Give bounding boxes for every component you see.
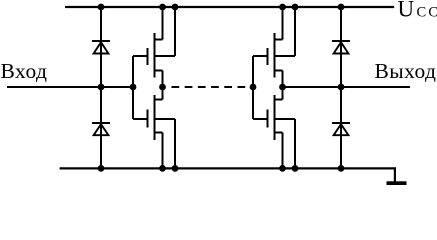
node Вход label [1,59,48,83]
wire VT3 bulk to Ucc [294,7,296,56]
wire VT1 source to Ucc [162,7,164,40]
node A junction stage1 output [159,84,166,91]
wire bottom ground rail [60,168,395,181]
junction stage2 output node [279,84,286,91]
junction stage1 gate feed / input [130,84,137,91]
wire VT3 drain to output node [282,71,284,88]
junction VT2 source rail [159,165,166,172]
transistor VT4 NMOS stage2 [253,95,295,140]
ground symbol [387,181,407,186]
wire left protection column [100,7,102,168]
node Выход label [375,59,437,83]
diode VD2 lower left (ground to input) [92,123,110,135]
wire VT4 source to ground [282,133,284,169]
junction left column bottom rail [98,165,105,172]
diode VD3 upper right (output to Ucc) [332,41,350,54]
junction input/diode column [98,84,105,91]
transistor VT3 PMOS stage2 [253,33,295,78]
svg-text:Выход: Выход [375,59,437,83]
wire dashed internal coupling node A to node B [172,86,254,88]
diode VD4 lower right (ground to output) [332,123,350,135]
svg-text:CC: CC [417,5,437,21]
wire VT1 bulk to Ucc [174,7,176,56]
wire stage2 gate feed [252,56,254,119]
junction VT3 source rail [279,4,286,11]
junction VT2 bulk rail [172,165,179,172]
transistor VT1 PMOS stage1 [133,33,175,78]
junction right column top rail [338,4,345,11]
svg-text:Вход: Вход [1,59,48,83]
wire right protection column [340,7,342,168]
junction right column bottom rail [338,165,345,172]
junction output/right column [338,84,345,91]
wire top Ucc rail [65,6,394,8]
wire VT3 source to Ucc [282,7,284,40]
junction VT4 source rail [279,165,286,172]
wire VT2 bulk to ground [174,119,176,168]
node B junction stage2 gate feed [250,84,257,91]
wire stage1 gate feed [132,56,134,119]
wire VT4 drain to output node [282,87,284,100]
junction left column top rail [98,4,105,11]
junction VT1 bulk rail [172,4,179,11]
junction VT4 bulk rail [292,165,299,172]
wire VT4 bulk to ground [294,119,296,168]
svg-text:U: U [398,0,415,22]
wire VT2 source to ground [162,133,164,169]
wire VT2 drain to node A [162,87,164,100]
wire output line [283,86,411,88]
wire VT1 drain to node A [162,71,164,88]
node Ucc label [398,0,437,22]
junction VT3 bulk rail [292,4,299,11]
diode VD1 upper left (input to Ucc) [92,41,110,54]
wire input line [7,86,133,88]
transistor VT2 NMOS stage1 [133,95,175,140]
junction VT1 source rail [159,4,166,11]
